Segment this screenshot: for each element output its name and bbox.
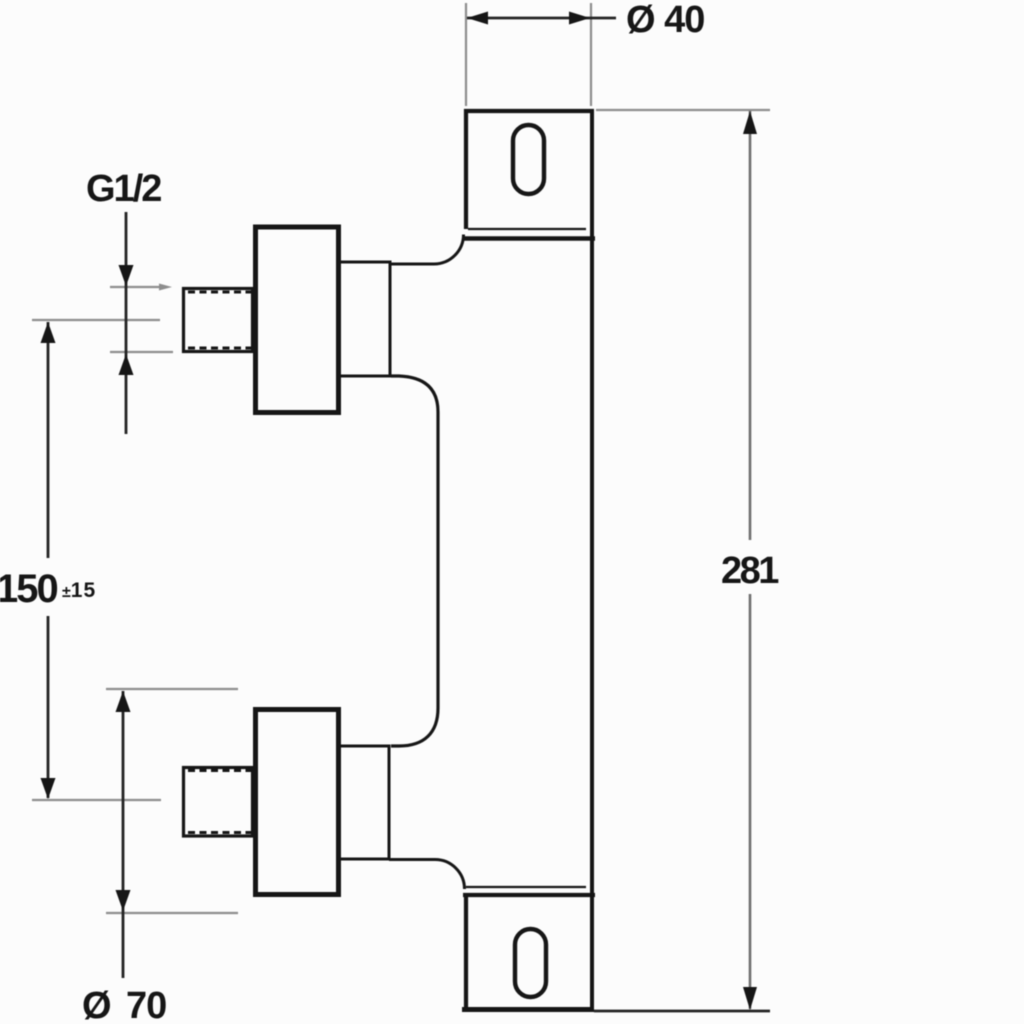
svg-text:G1/2: G1/2 xyxy=(86,168,161,210)
svg-text:281: 281 xyxy=(721,550,779,592)
svg-text:150: 150 xyxy=(0,567,57,611)
svg-text:Ø 40: Ø 40 xyxy=(626,0,704,41)
svg-text:±15: ±15 xyxy=(62,579,96,602)
svg-text:Ø70: Ø70 xyxy=(82,985,166,1024)
